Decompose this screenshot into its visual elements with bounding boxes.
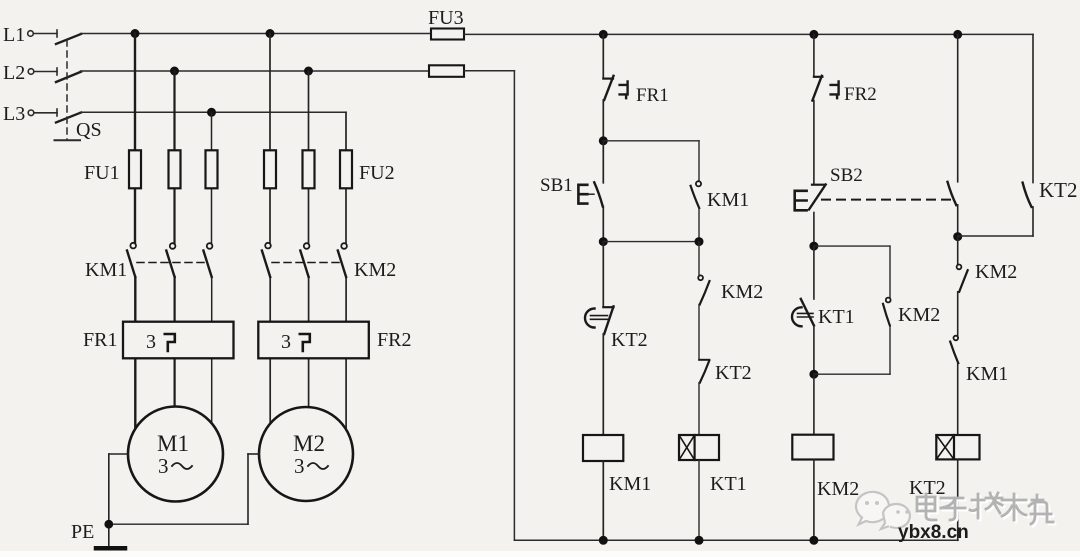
wire seal-in bottom link (603, 241, 699, 243)
node branch4 junction (953, 232, 962, 241)
wire branch4 to node (957, 205, 959, 237)
node rail dot branch3 (809, 536, 818, 545)
wire branch3 to KM2 coil (813, 374, 815, 435)
wire L2 bus (81, 70, 430, 72)
wire branch4 upper (957, 34, 959, 181)
switch QS linkage (55, 40, 102, 141)
wire SB2 linkage (dashed) (822, 199, 951, 201)
wire branch1 to KT2 contact (602, 242, 604, 308)
contactor KM1 main contacts (85, 243, 212, 281)
wire branch2 coil to rail (698, 460, 700, 540)
svg-text:KM2: KM2 (898, 304, 940, 326)
wire branch1 coil to rail (602, 461, 604, 540)
watermark text 电子技术控 (919, 495, 1055, 526)
node PE junction (104, 520, 113, 529)
contact FR2 (NC thermal) (812, 76, 876, 105)
wire branch2 to KM2 contact (698, 242, 700, 276)
svg-text:3: 3 (281, 331, 291, 353)
contact FR1 (NC thermal) (603, 76, 668, 106)
contact KM2 (NO aux on KT1 branch) (698, 275, 763, 304)
wire control bottom rail (514, 539, 958, 541)
node rail junction branch1 (599, 30, 608, 39)
node junction L1-M2 (266, 29, 275, 38)
switch QS pole L1 (56, 34, 81, 44)
fuse FU3 (two cartridges) (428, 7, 464, 77)
svg-text:3: 3 (158, 454, 169, 478)
wire to KM1 aux branch (603, 140, 699, 142)
thermal relay FR1 heater box (83, 322, 234, 359)
svg-text:3: 3 (294, 454, 305, 478)
wire branch3 upper (813, 34, 815, 76)
svg-text:KM1: KM1 (707, 189, 749, 211)
wire M1 phase U drop (134, 34, 137, 430)
wire branch3 to KT1 contact (813, 246, 815, 299)
contact KM1 (NC interlock) (950, 336, 1008, 385)
wire M2 phase V drop (308, 71, 310, 407)
node branch1 top junction (599, 136, 608, 145)
svg-text:M2: M2 (293, 431, 325, 456)
wire M2 phase W drop (345, 112, 347, 429)
contactor KM2 main contacts (262, 243, 396, 281)
wire branch2 to KT1 coil (698, 383, 700, 435)
svg-text:KM2: KM2 (354, 259, 396, 281)
svg-text:KT2: KT2 (715, 362, 752, 384)
node rail dot branch2 (695, 536, 704, 545)
wire KT2 contact bottom link (958, 235, 1033, 237)
node L2 (3, 62, 57, 84)
svg-text:KT2: KT2 (611, 329, 648, 351)
svg-text:L1: L1 (3, 24, 25, 46)
svg-text:QS: QS (76, 119, 102, 141)
wire M1 to PE (109, 454, 128, 547)
node L3 (3, 103, 57, 125)
ground PE (71, 521, 125, 548)
svg-text:PE: PE (71, 521, 94, 543)
svg-text:KM1: KM1 (609, 473, 651, 495)
wire L2 to control neutral drop (464, 71, 514, 541)
wire branch3 coil to rail (813, 460, 815, 541)
svg-text:KM2: KM2 (721, 281, 763, 303)
fuse FU1 (3 cartridges) (84, 150, 218, 188)
wire branch1 to SB1 (602, 141, 604, 183)
coil KM2 (792, 435, 859, 500)
node rail junction branch4 (953, 30, 962, 39)
node junction L3-M1 (207, 108, 216, 117)
wire branch3 FR2 to SB2 (813, 101, 815, 184)
wire branch2 upper (698, 141, 700, 181)
wire M2 phase U drop (269, 34, 271, 425)
fuse FU2 (3 cartridges) (264, 150, 395, 188)
contact KM2 (NO aux on KT2 branch) (957, 261, 1018, 292)
svg-text:SB1: SB1 (540, 175, 573, 196)
coil KT1 (time relay) (679, 435, 747, 495)
contact SB2 linked (NO start contact) (948, 182, 957, 205)
node junction L1-M1 (131, 29, 140, 38)
svg-text:FU2: FU2 (359, 162, 395, 184)
wire branch3 KT1 to node (813, 326, 815, 375)
wire branch2 mid (698, 305, 700, 360)
wire M2 to PE (109, 454, 259, 524)
svg-text:ybx8.cn: ybx8.cn (898, 522, 969, 543)
svg-text:3: 3 (146, 331, 156, 353)
svg-text:FR2: FR2 (377, 329, 411, 351)
motor M1 (128, 407, 223, 502)
wire M1 phase V drop (173, 71, 175, 407)
wire branch1 SB1 to node2 (602, 207, 604, 242)
svg-text:KT1: KT1 (818, 306, 855, 328)
svg-text:KM1: KM1 (966, 363, 1008, 385)
wire branch5 drop (1032, 34, 1034, 236)
thermal relay FR2 heater box (258, 322, 411, 359)
contact KM2 (NO parallel with KT1) (883, 298, 940, 326)
svg-text:KT1: KT1 (710, 473, 747, 495)
svg-text:FR1: FR1 (636, 85, 669, 106)
node rail dot branch1 (599, 536, 608, 545)
wire M1 phase W drop (211, 112, 213, 422)
wire branch4 to KT2 coil (957, 363, 959, 435)
svg-text:KT2: KT2 (1039, 178, 1078, 202)
contact KT2 (NO delayed on KT1 branch) (699, 360, 751, 384)
wire parallel KM2 branch (814, 246, 890, 374)
coil KM1 (583, 435, 651, 495)
node branch3 parallel bottom (809, 370, 818, 379)
svg-text:M1: M1 (157, 431, 189, 456)
contact KT1 (NC delayed opening) (792, 299, 855, 328)
wire parallel top link (814, 245, 890, 247)
svg-text:FR1: FR1 (83, 329, 117, 351)
node branch3 parallel top (809, 242, 818, 251)
wire branch1 to KM1 coil (602, 334, 604, 435)
svg-text:L2: L2 (3, 62, 25, 84)
node junction L2-M1 (170, 67, 179, 76)
wire branch3 SB2 to node (813, 213, 815, 247)
coil KT2 (time relay) (909, 435, 980, 499)
button SB1 (NC pushbutton) (540, 175, 603, 207)
node branch2 junction (695, 237, 704, 246)
wire L3 bus (81, 111, 347, 113)
button SB2 (NC pushbutton) (795, 165, 863, 210)
node junction L2-M2 (304, 67, 313, 76)
svg-text:FU3: FU3 (428, 7, 464, 29)
watermark logo (856, 492, 910, 529)
contact KT2 (NO delayed closing) (1023, 178, 1078, 207)
svg-text:KM2: KM2 (817, 478, 859, 500)
wire L1 to control rail (464, 33, 1033, 35)
node L1 (3, 24, 57, 46)
svg-text:L3: L3 (3, 103, 25, 125)
wire L1 bus (81, 33, 432, 35)
switch QS pole L3 (56, 113, 81, 123)
svg-text:FU1: FU1 (84, 162, 120, 184)
contact KM1 aux (NO seal-in) (691, 181, 750, 211)
svg-text:SB2: SB2 (830, 165, 863, 186)
switch QS pole L2 (56, 72, 81, 82)
wire branch4 to KM2 (957, 237, 959, 265)
node branch1 seal-in junction (599, 237, 608, 246)
motor M2 (259, 407, 353, 501)
wire branch4 mid (957, 292, 959, 337)
node rail junction branch3 (809, 30, 818, 39)
svg-text:KM2: KM2 (975, 261, 1017, 283)
wire branch1 upper (602, 34, 604, 78)
svg-text:FR2: FR2 (844, 84, 877, 105)
svg-text:KM1: KM1 (85, 259, 127, 281)
wire branch1 FR1 to node (602, 100, 604, 141)
contact KT2 (NC delayed opening) (585, 306, 648, 351)
wire branch4 coil to rail (957, 459, 959, 540)
wire branch2 to node (698, 208, 700, 242)
